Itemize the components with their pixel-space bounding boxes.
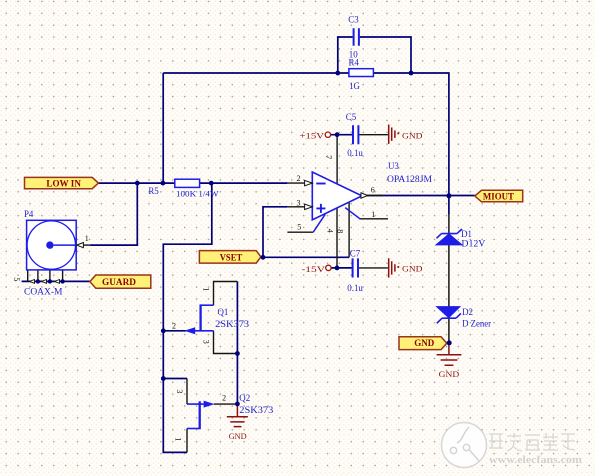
node LOW IN / P4: [135, 181, 140, 186]
svg-text:D12V: D12V: [461, 239, 486, 249]
power port -15V: [326, 265, 331, 270]
svg-text:-15V: -15V: [302, 264, 327, 274]
diode D1 zener: [436, 229, 462, 245]
svg-text:U3: U3: [388, 161, 399, 171]
pin lead U3 pin7: [336, 135, 338, 184]
svg-text:1: 1: [85, 234, 89, 243]
pin lead U3 pin5: [287, 231, 313, 233]
pin arrow P4 pin1: [77, 243, 84, 248]
wire R4 row: [338, 72, 411, 74]
wire VSET up to pin3: [263, 207, 287, 257]
wire Q1 gate stub: [163, 330, 186, 332]
pin lead U3 pin1: [360, 218, 389, 220]
wire feedback top: [163, 72, 338, 74]
wire R4 junction to output column: [411, 73, 449, 196]
op-amp U3: [312, 172, 362, 232]
port LOW IN: [25, 177, 99, 188]
pin lead C7 to GND: [359, 267, 388, 269]
node VSET: [261, 255, 266, 260]
node R4 right: [409, 71, 414, 76]
svg-text:0.1u: 0.1u: [347, 283, 363, 293]
capacitor C5: [353, 125, 358, 144]
pin ticks P4 shield pins: [28, 270, 63, 281]
capacitor C3: [354, 28, 359, 45]
svg-text:C5: C5: [346, 112, 357, 122]
resistor R5: [175, 179, 200, 187]
wire Q2 pin3 stub: [163, 378, 187, 380]
node P4 shield 4: [60, 279, 64, 283]
svg-text:GND: GND: [439, 369, 460, 379]
svg-text:3: 3: [175, 389, 184, 393]
pin lead Q2 pin1 vertical: [186, 429, 188, 453]
pin lead U3 pin6: [367, 195, 383, 197]
svg-text:1G: 1G: [349, 81, 360, 91]
svg-text:2SK373: 2SK373: [239, 405, 274, 415]
pin lead P4 pin1: [83, 244, 91, 246]
wire C3 branch left: [338, 37, 353, 73]
svg-text:8: 8: [336, 229, 345, 233]
svg-text:GUARD: GUARD: [102, 277, 137, 287]
svg-text:2SK373: 2SK373: [215, 319, 250, 329]
pin arrows P4 shield pins: [30, 280, 60, 284]
port MIOUT: [475, 190, 523, 202]
diode D2 zener: [437, 307, 461, 324]
svg-text:GND: GND: [229, 431, 247, 441]
svg-text:0.1u: 0.1u: [347, 148, 363, 158]
svg-text:COAX-M: COAX-M: [24, 287, 63, 297]
svg-text:D1: D1: [461, 229, 472, 239]
pin arrow U3 pin3: [305, 204, 313, 209]
wire LOW IN row: [98, 182, 287, 184]
svg-text:1: 1: [371, 210, 375, 219]
resistor R4: [349, 69, 374, 77]
node Q2 pin3: [161, 376, 166, 381]
wire feedback left vertical: [162, 73, 164, 183]
node R4 left: [335, 71, 340, 76]
svg-text:Q2: Q2: [239, 393, 250, 403]
svg-text:5: 5: [12, 277, 21, 281]
svg-text:P4: P4: [24, 209, 34, 219]
transistor Q2: [187, 401, 215, 430]
port VSET: [199, 251, 261, 264]
watermark logo circle: [442, 423, 487, 468]
pin lead U3 pin3: [287, 206, 305, 208]
node LOW IN / feedback: [161, 181, 166, 186]
svg-text:1: 1: [174, 437, 183, 441]
node P4 shield 2: [36, 279, 40, 283]
wire +15V node: [330, 134, 352, 136]
wire -15V node: [331, 267, 352, 269]
svg-text:R5: R5: [148, 186, 159, 196]
node P4 shield 3: [48, 279, 52, 283]
watermark chinese text: [489, 433, 575, 451]
wire P4 pin1 to LOW IN node: [91, 183, 138, 245]
pin arrow U3 pin2: [305, 180, 313, 185]
svg-text:R4: R4: [349, 58, 360, 68]
svg-text:OPA128JM: OPA128JM: [387, 174, 432, 184]
pin arrow U3 pin6: [361, 193, 368, 198]
wire output row to MIOUT: [367, 195, 475, 197]
power port +15V: [325, 132, 330, 137]
wire C3 branch right: [360, 37, 411, 73]
svg-text:GND: GND: [402, 264, 423, 274]
node MIOUT: [446, 193, 451, 198]
svg-text:7: 7: [324, 155, 333, 159]
capacitor C7: [353, 258, 358, 277]
wire P4 shield bus: [22, 280, 91, 282]
svg-text:MIOUT: MIOUT: [483, 192, 514, 202]
earth ground below D2: [437, 345, 462, 366]
svg-text:D2: D2: [462, 307, 473, 317]
pin lead U3 pin2: [287, 182, 305, 184]
svg-text:GND: GND: [402, 131, 423, 141]
node GND port: [447, 340, 452, 345]
node Q2 gate gnd: [235, 402, 240, 407]
wire R5 right down to guard net: [163, 183, 212, 452]
svg-text:www.elecfans.com: www.elecfans.com: [489, 454, 582, 466]
wire VSET row: [261, 256, 349, 258]
pin lead Q1 gate wire: [214, 403, 238, 405]
svg-text:1: 1: [201, 287, 210, 291]
svg-text:Q1: Q1: [218, 307, 229, 317]
node +15V: [335, 132, 340, 137]
earth ground at Q2 gate: [227, 406, 248, 427]
power ground symbol at C5: [389, 125, 399, 144]
svg-text:LOW IN: LOW IN: [46, 178, 81, 188]
svg-text:VSET: VSET: [220, 252, 243, 262]
node Q1 source: [235, 351, 240, 356]
pin lead Q2 pin3 vertical: [186, 379, 188, 405]
wire diode column upper: [448, 196, 450, 215]
svg-text:5: 5: [297, 222, 301, 231]
svg-text:2: 2: [297, 174, 301, 183]
port GUARD: [90, 275, 151, 288]
connector P4: [27, 220, 77, 270]
port GND: [399, 337, 447, 350]
transistor Q1: [184, 304, 213, 334]
power ground symbol at C7: [389, 258, 399, 277]
svg-text:GND: GND: [414, 338, 435, 348]
pin lead C5 to GND: [359, 134, 388, 136]
svg-text:100K 1/4W: 100K 1/4W: [176, 188, 219, 198]
svg-text:2: 2: [172, 322, 176, 331]
pin lead Q1 drain upper: [214, 282, 238, 306]
svg-text:3: 3: [201, 340, 210, 344]
pin lead U3 pin8: [348, 202, 350, 257]
svg-text:2: 2: [222, 394, 226, 403]
svg-text:4: 4: [326, 229, 335, 233]
pin lead U3 pin4: [336, 208, 338, 268]
node -15V: [335, 266, 340, 271]
BLACK PIN LEADS: [28, 135, 449, 453]
wire Q1 drain net vertical: [236, 282, 238, 404]
svg-text:C3: C3: [348, 15, 359, 25]
pin lead Q1 source lower: [214, 331, 238, 354]
wire diode column lower: [448, 214, 450, 342]
svg-text:3: 3: [297, 199, 301, 208]
node Q1 gate: [161, 328, 166, 333]
svg-text:6: 6: [371, 185, 375, 194]
svg-text:D Zener: D Zener: [462, 319, 491, 329]
svg-text:+15V: +15V: [300, 131, 326, 141]
svg-text:C7: C7: [350, 249, 361, 259]
node R5 right: [209, 181, 214, 186]
